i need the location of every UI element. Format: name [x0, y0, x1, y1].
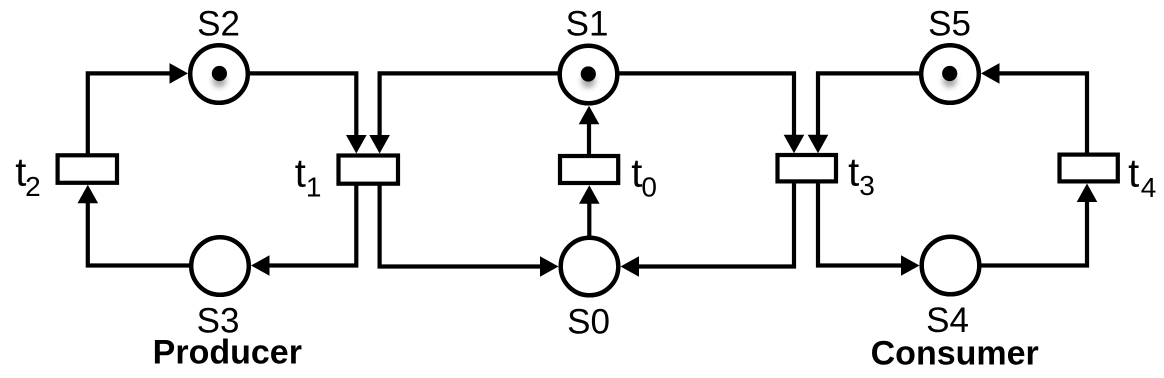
svg-text:S1: S1 [566, 5, 609, 44]
svg-text:S2: S2 [197, 5, 240, 44]
svg-text:Producer: Producer [153, 333, 302, 371]
svg-text:S5: S5 [928, 5, 971, 44]
svg-text:Consumer: Consumer [871, 335, 1039, 373]
svg-text:S0: S0 [567, 303, 610, 342]
